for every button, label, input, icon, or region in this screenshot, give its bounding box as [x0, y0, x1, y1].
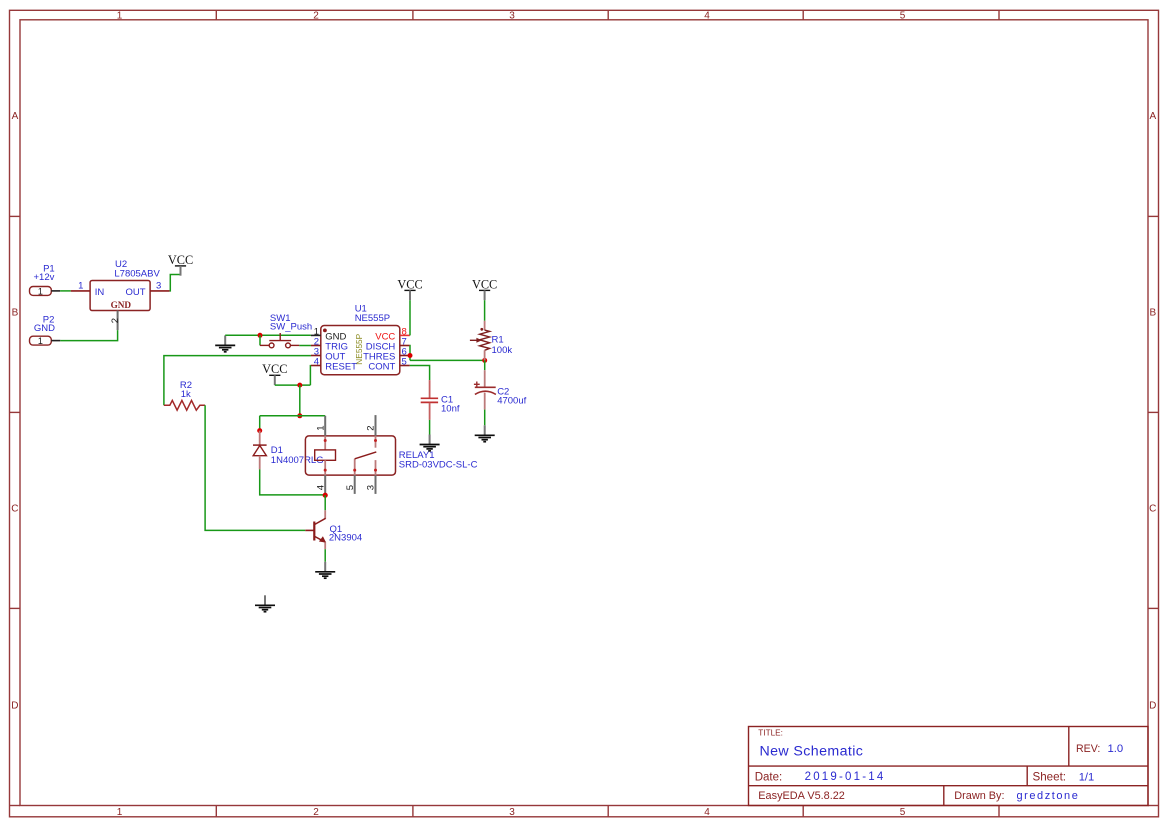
wire R2 to Q1 base — [205, 405, 305, 530]
svg-text:IN: IN — [95, 287, 105, 298]
svg-text:Sheet:: Sheet: — [1033, 770, 1067, 783]
svg-text:4: 4 — [704, 11, 710, 22]
power flag VCC at RESET net — [262, 362, 287, 385]
U1 pin 3 stub (OUT) — [311, 355, 321, 357]
svg-text:3: 3 — [366, 485, 377, 490]
svg-text:EasyEDA V5.8.22: EasyEDA V5.8.22 — [758, 790, 845, 802]
wire U1 pin3 OUT to R2 — [164, 356, 311, 406]
relay pin 1 stub — [324, 416, 326, 436]
wire U1 pin7 to pin6 junction — [409, 346, 411, 361]
svg-text:1: 1 — [117, 807, 123, 818]
wire R1 junction to C2 — [484, 360, 486, 370]
wire down to relay net — [299, 385, 301, 416]
relay coil — [315, 436, 336, 475]
svg-text:GND: GND — [34, 323, 55, 334]
wire C2 to ground — [484, 410, 486, 426]
U1 pin 6 stub (THRES) — [400, 355, 410, 357]
svg-text:2N3904: 2N3904 — [329, 533, 362, 544]
svg-text:L7805ABV: L7805ABV — [114, 269, 160, 280]
svg-text:C: C — [11, 503, 18, 514]
wire ground to U1 pin1 (GND net) — [225, 334, 311, 336]
U1 pin 2 stub (TRIG) — [311, 345, 321, 347]
wire junction to Q1 collector — [324, 495, 326, 510]
ground under C2 — [475, 425, 495, 441]
svg-text:4700uf: 4700uf — [497, 396, 526, 407]
wire relay-coil net horizontal — [260, 415, 326, 417]
svg-text:1: 1 — [78, 281, 83, 292]
regulator U2 body — [90, 281, 150, 311]
relay pin 3 stub — [375, 475, 377, 494]
relay pin 2 stub — [375, 415, 377, 436]
svg-text:2019-01-14: 2019-01-14 — [805, 771, 886, 783]
svg-text:5: 5 — [345, 485, 356, 490]
svg-text:GND: GND — [111, 300, 132, 310]
connector P2 — [30, 336, 52, 346]
P2 pin stub — [51, 340, 60, 342]
svg-text:OUT: OUT — [125, 287, 145, 298]
wire D1 anode to Q1 collector node — [260, 469, 326, 495]
P1 pin stub — [51, 290, 60, 292]
U2 pin 3 (OUT) — [150, 290, 170, 292]
wire VCC to R1 top — [484, 300, 486, 321]
wire junction down to SW1 — [259, 335, 261, 345]
svg-text:2: 2 — [366, 426, 377, 431]
svg-text:100k: 100k — [492, 345, 513, 356]
relay switch contacts — [353, 436, 377, 475]
relay pin 5 stub — [354, 475, 356, 494]
svg-text:CONT: CONT — [368, 361, 395, 372]
junction RESET/VCC node — [297, 383, 302, 388]
wire U1 pin5 (CONT) to C1 — [410, 366, 430, 381]
svg-text:A: A — [1149, 111, 1156, 122]
wire C1 to ground — [429, 420, 431, 435]
svg-text:5: 5 — [402, 357, 407, 368]
svg-text:1: 1 — [117, 11, 123, 22]
svg-text:4: 4 — [315, 485, 326, 490]
capacitor C2 4700uf (polarized) — [474, 370, 496, 409]
U1 pin 7 stub (DISCH) — [400, 345, 410, 347]
svg-text:1k: 1k — [181, 389, 191, 400]
relay RELAY1 body — [305, 436, 395, 475]
U1 pin 4 stub (RESET) — [311, 365, 321, 367]
U1 pin 5 stub (CONT) — [400, 365, 410, 367]
ground under Q1 — [315, 562, 335, 578]
switch SW1 (push button) — [260, 333, 299, 348]
standalone ground symbol — [255, 595, 275, 611]
wire U2 OUT to VCC flag — [170, 275, 181, 291]
svg-text:1: 1 — [38, 286, 43, 296]
diode D1 1N4007RLG — [253, 431, 267, 470]
wire U1 pin4 RESET down — [309, 366, 312, 386]
svg-text:1.0: 1.0 — [1108, 743, 1124, 755]
svg-text:10nf: 10nf — [441, 403, 460, 414]
svg-text:SRD-03VDC-SL-C: SRD-03VDC-SL-C — [399, 460, 478, 471]
svg-text:Drawn By:: Drawn By: — [954, 790, 1004, 802]
relay pin 4 stub — [324, 475, 326, 495]
resistor R2 1k — [164, 400, 205, 410]
svg-text:3: 3 — [156, 281, 161, 292]
svg-text:2: 2 — [313, 807, 319, 818]
svg-text:4: 4 — [314, 357, 319, 368]
svg-text:D: D — [1149, 700, 1156, 711]
power flag VCC above U1 pin8 — [397, 277, 422, 300]
wire THRES net to R1 bottom — [410, 359, 485, 361]
svg-text:A: A — [12, 111, 19, 122]
svg-text:5: 5 — [900, 11, 906, 22]
wire P1 to U2 IN — [60, 290, 71, 292]
junction relay coil node — [297, 413, 302, 418]
capacitor C1 — [421, 380, 438, 420]
svg-text:2: 2 — [313, 11, 319, 22]
wire VCC to U1 pin8 — [409, 300, 411, 335]
svg-text:R1: R1 — [492, 335, 504, 346]
power flag VCC near U2 — [168, 253, 193, 276]
U1 pin 1 stub (GND) — [311, 334, 321, 336]
junction Q1 collector node — [323, 493, 328, 498]
svg-text:1: 1 — [38, 336, 43, 346]
svg-text:+12v: +12v — [34, 272, 55, 283]
svg-text:5: 5 — [900, 807, 906, 818]
svg-text:B: B — [12, 307, 19, 318]
U2 pin 1 (IN) — [71, 290, 90, 292]
svg-text:New Schematic: New Schematic — [760, 743, 864, 759]
svg-text:1/1: 1/1 — [1079, 771, 1095, 783]
wire SW1 to U1 pin2 — [299, 345, 311, 347]
power flag VCC above R1 — [472, 277, 497, 300]
U2 pin 2 (GND) stub — [117, 311, 119, 331]
svg-text:NE555P: NE555P — [355, 313, 390, 324]
wire P2 to U2 GND pin — [60, 330, 117, 341]
svg-text:REV:: REV: — [1076, 743, 1100, 755]
svg-text:3: 3 — [509, 807, 515, 818]
IC U1 NE555P body — [321, 326, 400, 375]
svg-text:1: 1 — [315, 426, 326, 431]
junction at U1 pin6 — [408, 353, 413, 358]
wire Q1 emitter to ground — [324, 549, 326, 562]
svg-text:gredztone: gredztone — [1017, 790, 1080, 802]
svg-text:2: 2 — [110, 318, 121, 323]
ground under C1 — [420, 435, 440, 451]
svg-text:TITLE:: TITLE: — [758, 728, 783, 737]
svg-text:C: C — [1149, 503, 1156, 514]
wire down to D1 cathode — [259, 416, 261, 431]
U1 pin1 marker dot — [323, 329, 327, 333]
svg-text:RESET: RESET — [325, 361, 357, 372]
svg-text:SW_Push: SW_Push — [270, 322, 312, 333]
junction GND/SW1 node — [258, 333, 263, 338]
transistor Q1 2N3904 — [305, 510, 326, 549]
svg-text:3: 3 — [509, 11, 515, 22]
svg-text:B: B — [1149, 307, 1156, 318]
junction D1 cathode — [257, 428, 262, 433]
ground symbol left of SW1 — [215, 335, 235, 351]
wire VCC flag to RESET net — [275, 384, 311, 386]
svg-text:4: 4 — [704, 807, 710, 818]
connector P1 — [30, 286, 52, 296]
junction under R1 — [482, 358, 487, 363]
svg-text:D: D — [11, 700, 18, 711]
U1 pin 8 stub (VCC) — [400, 334, 410, 336]
svg-text:Date:: Date: — [755, 771, 783, 783]
resistor R1 100k (adjustable) — [470, 321, 490, 361]
title block — [749, 727, 1149, 806]
